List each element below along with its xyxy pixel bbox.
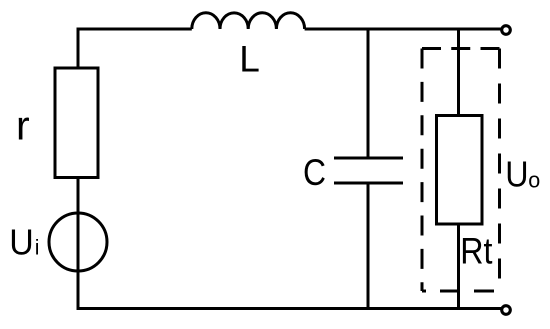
- wire top-right segment: [305, 28, 501, 31]
- resistor r: [55, 68, 98, 178]
- dashed box right edge: [498, 49, 501, 292]
- wire Rt top: [457, 29, 460, 117]
- resistor Rt: [437, 116, 483, 225]
- svg-text:o: o: [528, 167, 540, 192]
- source U_i: [49, 213, 107, 271]
- svg-text:C: C: [303, 152, 326, 193]
- dashed box left edge: [421, 49, 424, 292]
- dashed box bottom edge: [422, 290, 500, 293]
- svg-text:r: r: [16, 102, 30, 148]
- dashed box top edge: [422, 47, 500, 50]
- wire top-left segment with corner: [78, 29, 192, 70]
- svg-text:Rt: Rt: [460, 230, 493, 271]
- svg-text:L: L: [239, 39, 260, 80]
- wire Rt bottom: [457, 224, 460, 309]
- terminal bottom: [502, 306, 511, 315]
- terminal top: [502, 26, 511, 35]
- wire capacitor bottom: [367, 183, 370, 309]
- svg-text:i: i: [35, 237, 40, 260]
- wire resistor to bottom rail: [78, 176, 501, 309]
- inductor L: [192, 13, 305, 29]
- wire capacitor top: [367, 29, 370, 158]
- capacitor C plates: [334, 158, 403, 183]
- svg-text:U: U: [505, 154, 528, 195]
- svg-text:U: U: [9, 222, 34, 263]
